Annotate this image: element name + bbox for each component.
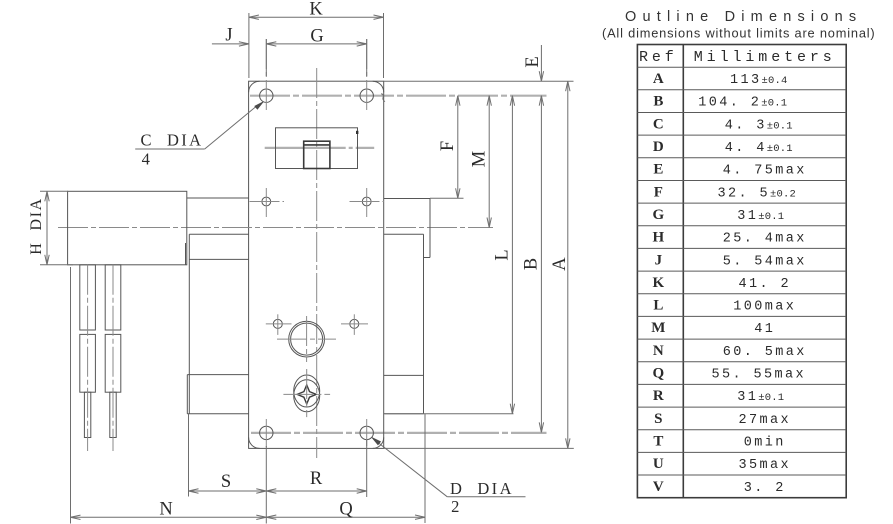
svg-text:M: M — [651, 320, 665, 336]
svg-text:C DIA: C DIA — [141, 131, 204, 150]
svg-text:U: U — [653, 456, 664, 472]
svg-text:(All dimensions without limits: (All dimensions without limits are nomin… — [602, 26, 876, 41]
svg-text:J: J — [655, 252, 663, 268]
svg-text:100max: 100max — [733, 300, 796, 315]
svg-text:R: R — [310, 469, 323, 489]
svg-text:L: L — [493, 249, 513, 260]
svg-text:41. 2: 41. 2 — [738, 277, 791, 292]
svg-text:4: 4 — [142, 149, 153, 168]
svg-text:R: R — [653, 388, 664, 404]
svg-text:4. 75max: 4. 75max — [723, 164, 807, 179]
svg-text:B: B — [522, 258, 542, 270]
svg-text:0min: 0min — [744, 436, 786, 451]
svg-text:60. 5max: 60. 5max — [723, 345, 807, 360]
svg-text:A: A — [550, 257, 570, 271]
svg-text:N: N — [159, 500, 172, 520]
svg-text:D: D — [653, 139, 664, 155]
svg-text:Q: Q — [339, 500, 353, 520]
svg-text:55. 55max: 55. 55max — [711, 368, 806, 383]
svg-text:41: 41 — [754, 322, 775, 337]
svg-text:Outline Dimensions: Outline Dimensions — [625, 9, 862, 25]
svg-text:A: A — [653, 71, 664, 87]
svg-text:L: L — [653, 298, 663, 314]
svg-text:E: E — [523, 56, 543, 67]
svg-text:31±0.1: 31±0.1 — [737, 209, 784, 224]
svg-text:N: N — [653, 343, 664, 359]
svg-text:Q: Q — [653, 366, 665, 382]
svg-text:G: G — [310, 27, 323, 47]
svg-text:27max: 27max — [738, 413, 791, 428]
svg-text:B: B — [653, 94, 663, 110]
svg-text:31±0.1: 31±0.1 — [737, 390, 784, 405]
svg-text:G: G — [653, 207, 665, 223]
svg-text:Millimeters: Millimeters — [694, 49, 836, 66]
svg-text:T: T — [653, 434, 663, 450]
svg-text:32. 5±0.2: 32. 5±0.2 — [717, 186, 796, 201]
svg-text:H: H — [653, 230, 665, 246]
svg-text:C: C — [653, 116, 664, 132]
svg-text:V: V — [653, 479, 664, 495]
svg-text:K: K — [653, 275, 665, 291]
svg-text:3. 2: 3. 2 — [744, 481, 786, 496]
svg-text:104. 2±0.1: 104. 2±0.1 — [698, 96, 787, 111]
svg-text:Ref: Ref — [639, 49, 678, 66]
svg-text:113±0.4: 113±0.4 — [730, 73, 788, 88]
svg-text:2: 2 — [451, 497, 462, 516]
svg-text:35max: 35max — [738, 458, 791, 473]
svg-text:K: K — [309, 0, 323, 20]
svg-text:F: F — [438, 141, 458, 151]
svg-text:S: S — [654, 411, 662, 427]
svg-text:4. 3±0.1: 4. 3±0.1 — [725, 118, 793, 133]
svg-text:M: M — [470, 151, 490, 167]
svg-text:5. 54max: 5. 54max — [723, 254, 807, 269]
svg-text:F: F — [654, 184, 663, 200]
svg-text:D DIA: D DIA — [450, 479, 514, 498]
svg-text:E: E — [653, 162, 663, 178]
svg-text:H DIA: H DIA — [28, 197, 45, 255]
svg-text:S: S — [221, 472, 231, 492]
svg-text:25. 4max: 25. 4max — [723, 232, 807, 247]
svg-text:4. 4±0.1: 4. 4±0.1 — [725, 141, 793, 156]
svg-text:J: J — [225, 26, 232, 46]
